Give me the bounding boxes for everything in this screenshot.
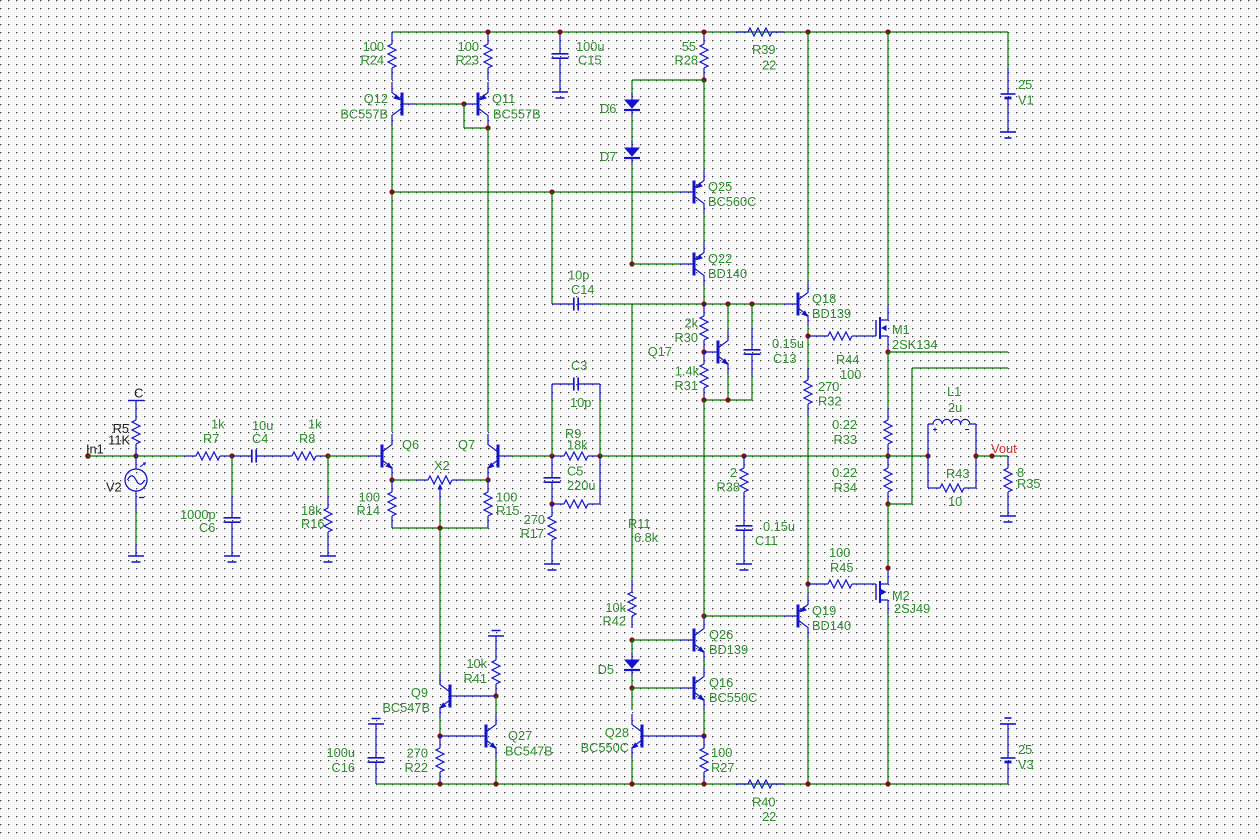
resistor R15 [484,480,519,528]
svg-text:10k: 10k [466,656,487,671]
wire Q28 base to node [656,735,704,737]
svg-text:M1: M1 [892,322,910,337]
svg-text:R35: R35 [1017,476,1040,491]
svg-text:25: 25 [1018,742,1032,757]
transistor Q18 [784,282,851,326]
capacitor C5 [544,456,596,504]
ground C15 [552,80,568,98]
transistor Q9 [382,674,464,718]
node Vout [989,441,1017,459]
wire Q26 collector up [703,616,705,618]
capacitor C4 [232,418,280,463]
junction rail x808 [805,781,810,786]
resistor R32 [804,368,841,416]
wire x632 mid segment [631,304,633,580]
resistor R39 [736,28,784,73]
svg-text:R8: R8 [299,431,315,446]
svg-text:R22: R22 [405,760,428,775]
junction Q11 base node [461,101,466,106]
wire M2 source down [887,614,889,784]
transistor Q12 [340,82,416,126]
svg-text:100u: 100u [327,745,355,760]
wire R34 node down to M2 [887,504,889,568]
svg-text:C: C [134,386,143,401]
junction x552 y192 [549,189,554,194]
svg-text:R30: R30 [675,330,698,345]
resistor R33 [832,408,892,456]
svg-text:R42: R42 [603,614,626,629]
capacitor C3 [552,358,600,456]
svg-text:22: 22 [762,58,776,73]
diode D7 [600,141,640,165]
svg-text:R41: R41 [464,671,487,686]
ground R17 [544,552,560,570]
resistor R45 [808,545,864,588]
svg-text:BC550C: BC550C [581,740,629,755]
input terminal In1 [85,442,104,459]
resistor R43 [928,456,976,509]
wire y352 output sense [888,351,1008,353]
wire V2 node to R7 [136,455,184,457]
wire Q11 diode tie [464,104,488,128]
svg-text:V1: V1 [1018,93,1034,108]
svg-text:BD140: BD140 [708,266,747,281]
transistor Q16 [680,666,757,710]
wire Q16 base [632,687,680,689]
junction R28 bottom [701,77,706,82]
svg-text:2SJ49: 2SJ49 [894,601,930,616]
svg-text:R33: R33 [834,432,857,447]
junction y304 x752 [749,301,754,306]
svg-text:Q12: Q12 [364,91,388,106]
transistor Q11 [464,82,541,126]
svg-text:X2: X2 [434,458,450,473]
wire Q9 base to R41 [464,695,496,697]
junction Q7 emitter [485,477,490,482]
junction C6 node [229,453,234,458]
svg-text:18k: 18k [567,438,588,453]
wire Q9 emitter down [439,718,441,736]
svg-text:BC557B: BC557B [493,106,541,121]
resistor R8 [280,417,328,461]
junction R9 left [549,453,554,458]
svg-text:D5: D5 [598,662,614,677]
wire D5 to node [631,676,633,688]
transistor Q22 [680,242,747,286]
svg-text:Q26: Q26 [709,627,733,642]
junction rail x888 [885,29,890,34]
svg-text:BC550C: BC550C [709,690,757,705]
resistor R24 [361,32,396,80]
svg-text:220u: 220u [567,478,595,493]
wire X2 wiper down [439,500,441,528]
wire Q26 emitter to Q16 [703,660,705,668]
battery V1 [1001,68,1034,132]
resistor R41 [464,648,500,696]
wire Q11 collector line [487,128,489,432]
wire D6 to D7 [631,115,633,142]
wire Q18 emitter down [807,326,809,380]
svg-text:C6: C6 [199,520,215,535]
wire M1 drain to rail [887,32,889,306]
svg-text:In1: In1 [86,442,104,457]
resistor R5 [108,408,140,456]
svg-text:R39: R39 [752,42,775,57]
svg-text:0.15u: 0.15u [772,336,804,351]
transistor Q19 [784,594,851,638]
resistor R14 [357,480,396,528]
wire Q25 collector to Q22 [703,214,705,242]
capacitor C15 [552,32,605,80]
junction Q9 base node [493,693,498,698]
wire y400 bottom of VBE multiplier [704,399,752,401]
junction R44 node [805,333,810,338]
svg-text:BC547B: BC547B [382,700,430,715]
svg-text:Q19: Q19 [812,603,836,618]
svg-text:R24: R24 [361,53,384,68]
wire Q27 collector up [495,696,497,714]
svg-text:BC557B: BC557B [340,106,388,121]
svg-text:BC547B: BC547B [505,744,553,759]
wire Q25 emitter to R28 [703,80,705,170]
junction M1 source node [885,349,890,354]
transistor Q6 [368,434,419,478]
junction rail x704 [701,781,706,786]
svg-text:BD140: BD140 [812,618,851,633]
terminal C [128,386,144,409]
resistor R35 [1004,456,1040,504]
svg-text:Vout: Vout [991,441,1017,456]
svg-text:R16: R16 [301,516,324,531]
wire top +25V rail [392,31,1008,33]
transistor Q28 [581,714,656,758]
resistor R34 [832,456,892,504]
inverted ground C16 [368,719,384,737]
svg-text:V3: V3 [1018,757,1034,772]
wire x704 from VBE bottom [703,400,705,616]
junction R45 node [805,581,810,586]
junction R23 top [485,29,490,34]
svg-text:270: 270 [524,512,545,527]
wire Q12 collector line [391,126,393,432]
wire bottom -25V rail [376,783,1008,785]
diode D6 [600,93,640,117]
wire y616 Q19 base net [704,615,784,617]
junction Q19 base net [701,613,706,618]
svg-text:R31: R31 [675,378,698,393]
svg-text:D7: D7 [600,149,616,164]
junction R27 top [701,733,706,738]
svg-text:Q16: Q16 [709,675,733,690]
resistor R11 [552,456,659,545]
transistor Q7 [458,434,512,478]
svg-text:R23: R23 [456,53,479,68]
wire Q17 collector [727,304,729,330]
resistor R30 [675,304,708,352]
ground V3 inverted [1000,718,1016,724]
svg-text:0.22: 0.22 [832,465,857,480]
wire y304 base net of Q18 [600,303,784,305]
svg-text:2: 2 [730,465,737,480]
junction C5 bottom [549,501,554,506]
transistor Q25 [680,170,756,214]
capacitor C11 [736,504,796,552]
junction R34 bottom [885,501,890,506]
svg-text:Q6: Q6 [402,437,419,452]
junction output node L1 left [925,453,930,458]
svg-text:R45: R45 [830,560,853,575]
svg-text:270: 270 [818,379,839,394]
transistor Q17 [648,330,729,374]
resistor R16 [301,456,332,544]
resistor R9 [552,426,600,460]
wire Q17 emitter [727,374,729,400]
capacitor C13 [744,304,805,400]
svg-text:10p: 10p [570,395,591,410]
junction Q6 emitter [389,477,394,482]
capacitor C14 [552,268,600,311]
junction R42 bottom [629,637,634,642]
junction L1 right [973,453,978,458]
wire Q28 collector up [631,688,633,710]
junction Q11 collector [485,125,490,130]
svg-text:11K: 11K [108,433,130,448]
svg-text:C14: C14 [571,282,594,297]
junction y400 x704 [701,397,706,402]
inductor L1 [928,384,976,456]
svg-text:6.8k: 6.8k [634,530,659,545]
diode D5 [598,653,640,677]
svg-text:C15: C15 [578,53,601,68]
resistor R28 [675,32,708,80]
svg-text:1k: 1k [211,417,225,432]
junction C15 top [557,29,562,34]
resistor R38 [717,456,748,504]
junction Q22 base [629,261,634,266]
svg-text:C3: C3 [571,358,587,373]
resistor R44 [808,332,864,382]
junction R30 bottom [701,349,706,354]
junction y304 x704 [701,301,706,306]
svg-text:D6: D6 [600,101,616,116]
transistor Q27 [472,714,553,759]
wire R34 to sense [888,368,1008,504]
ground V2 [128,544,144,562]
svg-text:R11: R11 [628,516,651,531]
wire y192 Q25 base net [392,191,680,193]
svg-text:Q22: Q22 [708,251,732,266]
svg-text:Q9: Q9 [411,685,428,700]
resistor R40 [736,780,784,824]
svg-text:100: 100 [711,745,732,760]
wire Q22 base [632,263,680,265]
junction R9 right [597,453,602,458]
ground C6 [224,544,240,562]
svg-text:R32: R32 [818,394,841,409]
resistor R22 [405,736,444,784]
inverted ground R41 [488,631,504,649]
junction R16 node [325,453,330,458]
wire V1 drop [1007,32,1009,68]
svg-text:1.4k: 1.4k [675,364,700,379]
svg-text:Q27: Q27 [508,728,532,743]
wire R16 node to Q6 [328,455,368,457]
wire x552 down to C14 [551,192,553,304]
svg-text:Q11: Q11 [492,91,515,106]
svg-text:Q28: Q28 [605,725,629,740]
resistor R27 [700,736,734,784]
svg-text:100: 100 [840,367,861,382]
svg-text:R44: R44 [836,352,859,367]
svg-text:22: 22 [762,809,776,824]
junction rail x496 [493,781,498,786]
svg-text:2SK134: 2SK134 [892,337,938,352]
junction x392 y192 [389,189,394,194]
wire Q7 base to R9 net [512,455,552,457]
wire Q19 collector up [807,416,809,594]
ground C11 [736,552,752,570]
wire Q16 emitter down [703,710,705,736]
svg-text:R40: R40 [752,795,775,810]
svg-text:R28: R28 [675,53,698,68]
svg-text:25: 25 [1018,77,1032,92]
junction D5 bottom [629,685,634,690]
wire to Vout [976,455,1008,457]
svg-text:10: 10 [948,494,962,509]
svg-text:R7: R7 [203,431,219,446]
junction rail x808 [805,29,810,34]
potentiometer X2 [392,458,488,500]
junction R38 top [741,453,746,458]
mosfet M1 2SK134 [864,306,938,352]
svg-text:C4: C4 [252,431,268,446]
junction R28 top [701,29,706,34]
svg-text:Q7: Q7 [458,437,475,452]
svg-text:270: 270 [407,746,428,761]
source V2 [106,456,147,544]
capacitor C16 [327,736,385,784]
svg-text:L1: L1 [947,384,961,399]
svg-text:V2: V2 [106,480,122,495]
svg-text:100: 100 [829,545,850,560]
svg-text:R14: R14 [357,503,380,518]
svg-text:BD139: BD139 [709,642,748,657]
svg-text:BC560C: BC560C [708,194,756,209]
svg-text:0.22: 0.22 [832,417,857,432]
svg-text:R15: R15 [496,503,519,518]
resistor R7 [184,417,232,461]
svg-text:0.15u: 0.15u [763,519,795,534]
wire Q18 collector to rail [807,32,809,282]
svg-text:1k: 1k [308,417,322,432]
svg-text:C11: C11 [755,533,778,548]
wire Q27 base [440,735,472,737]
wire x632 top segment [632,80,704,96]
mosfet M2 2SJ49 [864,570,930,616]
wire D7 to Q22 base [631,163,633,264]
junction M2 drain [885,565,890,570]
wire R33 top [887,352,889,408]
svg-text:R43: R43 [946,466,969,481]
svg-text:C16: C16 [332,760,355,775]
junction rail x632 [629,781,634,786]
junction V2 node [133,453,138,458]
wire Q19 emitter down [807,638,809,784]
svg-text:2k: 2k [684,316,698,331]
wire tail current line [439,528,441,684]
capacitor C6 [180,456,241,544]
resistor R31 [675,352,708,400]
junction rail x440 [437,781,442,786]
junction R33 R34 [885,453,890,458]
resistor R17 [521,504,556,552]
junction rail x888 [885,781,890,786]
svg-text:Q25: Q25 [708,179,732,194]
svg-text:R27: R27 [711,760,734,775]
svg-text:BD139: BD139 [812,306,851,321]
wire Q28 emitter down [631,758,633,784]
svg-text:C5: C5 [567,464,583,479]
svg-text:R38: R38 [717,480,740,495]
svg-text:R34: R34 [834,480,857,495]
junction y304 x728 [725,301,730,306]
svg-text:Q17: Q17 [648,344,672,359]
transistor Q26 [680,618,748,662]
battery V3 [1001,724,1034,784]
wire emitter degeneration bottom [392,527,488,529]
svg-text:C13: C13 [773,351,796,366]
wire Q27 emitter down [495,758,497,784]
wire R42 to D5 [631,640,633,654]
svg-text:2u: 2u [948,400,962,415]
wire Q22 collector down [703,286,705,304]
wire Q26 base [632,639,680,641]
ground V1 [1000,132,1016,138]
junction Q27 base node [437,733,442,738]
ground R16 [320,544,336,562]
wire In1 to node [88,455,136,457]
resistor R23 [456,32,492,80]
wire Q12 base to Q11 [416,103,464,105]
resistor R42 [603,580,636,629]
junction X2 tail [437,525,442,530]
wire main output net y456 [600,455,928,457]
svg-text:Q18: Q18 [812,291,836,306]
junction y400 x728 [725,397,730,402]
svg-text:R17: R17 [521,526,544,541]
ground R35 [1000,504,1016,522]
svg-text:10p: 10p [568,268,589,283]
